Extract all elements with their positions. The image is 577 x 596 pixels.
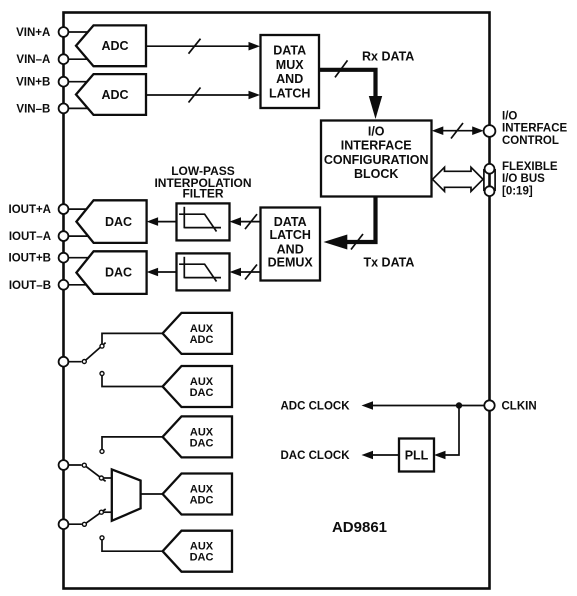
pin aux 1 <box>59 357 69 367</box>
wire AUX ADC 1 input <box>102 333 163 343</box>
switch lever pin3 to mux input 2 <box>84 509 105 524</box>
wire IOUT-A to DAC A <box>64 235 91 237</box>
svg-text:LATCH: LATCH <box>269 228 310 242</box>
open throw circle AUX DAC 3 <box>100 536 104 540</box>
pin FLEXIBLE I/O BUS (stacked) <box>484 164 495 196</box>
svg-text:ADC: ADC <box>190 494 214 506</box>
svg-text:FLEXIBLE: FLEXIBLE <box>502 161 558 173</box>
svg-text:DAC: DAC <box>190 552 214 564</box>
wire aux pin 2 to switch common <box>64 464 82 466</box>
svg-text:CLKIN: CLKIN <box>502 401 537 413</box>
label LOW-PASS INTERPOLATION FILTER <box>154 164 251 201</box>
aux mux trapezoid <box>112 469 141 520</box>
svg-text:INTERFACE: INTERFACE <box>502 123 568 135</box>
wire mux to AUX ADC 2 <box>141 493 163 495</box>
pin VIN-A <box>59 54 69 64</box>
svg-text:DAC CLOCK: DAC CLOCK <box>281 450 351 462</box>
svg-text:IOUT–B: IOUT–B <box>9 280 51 292</box>
svg-text:DEMUX: DEMUX <box>268 256 314 270</box>
svg-text:CONTROL: CONTROL <box>502 135 559 147</box>
svg-text:IOUT+B: IOUT+B <box>9 253 52 265</box>
pin VIN+A <box>59 27 69 37</box>
pin IOUT-A <box>59 231 69 241</box>
svg-text:AND: AND <box>277 242 304 256</box>
label FLEXIBLE I/O BUS [0:19] <box>502 161 558 198</box>
wire AUX DAC 3 input <box>102 540 163 551</box>
DAC B block <box>76 251 146 294</box>
svg-text:AND: AND <box>276 72 303 86</box>
svg-text:DATA: DATA <box>274 215 307 229</box>
switch common circle pin3 <box>82 522 86 526</box>
wire ADC B to DATA MUX (bus) <box>146 88 260 103</box>
switch lever pin1 to AUX ADC 1 <box>84 343 105 362</box>
ADC A block <box>76 25 146 66</box>
AUX DAC 2 block <box>163 416 232 457</box>
mux input 1 circle <box>99 476 103 480</box>
chip border AD9861 <box>64 13 490 589</box>
wire VIN+A to ADC A <box>64 31 91 33</box>
svg-text:INTERFACE: INTERFACE <box>341 139 412 153</box>
wire ADC A to DATA MUX (bus) <box>146 39 260 54</box>
AUX DAC 1 block <box>163 366 232 407</box>
pin IOUT+B <box>59 253 69 263</box>
wire aux pin 1 to switch common <box>64 361 82 363</box>
switch common circle pin1 <box>82 360 86 364</box>
svg-text:[0:19]: [0:19] <box>502 185 533 197</box>
mux input 2 circle <box>99 510 103 514</box>
junction node clock <box>456 402 462 408</box>
svg-text:ADC: ADC <box>101 88 128 102</box>
svg-text:MUX: MUX <box>276 58 304 72</box>
pin VIN+B <box>59 77 69 87</box>
switch throw circle AUX ADC 1 <box>100 344 104 348</box>
svg-text:CONFIGURATION: CONFIGURATION <box>324 153 429 167</box>
AUX DAC 3 block <box>163 531 232 572</box>
wire DATA LATCH to filter B (bus) <box>230 265 261 280</box>
svg-text:ADC CLOCK: ADC CLOCK <box>281 401 351 413</box>
svg-text:VIN+A: VIN+A <box>16 27 50 39</box>
AUX ADC 2 block <box>163 474 232 515</box>
Tx DATA thick bus wire <box>324 197 376 250</box>
DAC A block <box>76 200 146 243</box>
wire AUX DAC 2 input <box>102 437 163 449</box>
wire DATA LATCH to filter A (bus) <box>230 214 261 229</box>
svg-text:BLOCK: BLOCK <box>354 167 398 181</box>
switch lever pin2 to mux input 1 <box>84 465 105 481</box>
wire IOUT-B to DAC B <box>64 284 91 286</box>
svg-text:IOUT+A: IOUT+A <box>9 204 52 216</box>
wire CLKIN to ADC CLOCK <box>362 401 484 410</box>
wire AUX DAC 1 input <box>102 376 163 387</box>
wire aux pin 3 to switch common <box>64 523 82 525</box>
wire VIN-B to ADC B <box>64 107 92 109</box>
pin aux 2 <box>59 460 69 470</box>
svg-text:LATCH: LATCH <box>269 86 310 100</box>
pin aux 3 <box>59 519 69 529</box>
wire VIN-A to ADC A <box>64 58 91 60</box>
pin I/O INTERFACE CONTROL <box>484 125 496 137</box>
wire PLL to DAC CLOCK <box>362 451 400 460</box>
pin VIN-B <box>59 104 69 114</box>
svg-text:I/O: I/O <box>368 124 385 138</box>
switch throw circle AUX DAC 1 <box>100 372 104 376</box>
wire junction to PLL <box>434 406 459 460</box>
ADC B block <box>76 74 146 115</box>
svg-text:DATA: DATA <box>273 44 306 58</box>
low-pass filter block A <box>177 203 230 240</box>
svg-text:Tx DATA: Tx DATA <box>364 256 415 270</box>
svg-text:DAC: DAC <box>190 437 214 449</box>
bus arrow I/O config to FLEXIBLE I/O BUS (hollow double arrow) <box>433 167 484 191</box>
svg-text:DAC: DAC <box>105 215 132 229</box>
label I/O INTERFACE CONTROL <box>502 110 568 147</box>
low-pass filter block B <box>177 253 230 290</box>
svg-text:VIN+B: VIN+B <box>16 77 50 89</box>
AUX ADC 1 block <box>163 313 232 354</box>
svg-text:I/O BUS: I/O BUS <box>502 173 545 185</box>
svg-text:DAC: DAC <box>105 265 132 279</box>
I/O INTERFACE CONFIGURATION BLOCK <box>321 121 432 197</box>
wire mux input 1 <box>104 477 112 479</box>
switch common circle pin2 <box>82 463 86 467</box>
svg-text:PLL: PLL <box>405 448 429 462</box>
wire IOUT+A to DAC A <box>64 208 91 210</box>
pin CLKIN <box>484 400 494 410</box>
svg-text:DAC: DAC <box>190 387 214 399</box>
wire VIN+B to ADC B <box>64 81 90 83</box>
Rx DATA thick bus wire <box>319 60 382 119</box>
svg-text:Rx DATA: Rx DATA <box>362 50 414 64</box>
DATA LATCH AND DEMUX block <box>261 208 321 281</box>
wire IOUT+B to DAC B <box>64 257 90 259</box>
wire filter B to DAC B <box>147 268 177 277</box>
svg-text:FILTER: FILTER <box>182 187 223 201</box>
svg-text:AD9861: AD9861 <box>332 519 387 536</box>
svg-text:ADC: ADC <box>101 39 128 53</box>
PLL block <box>399 439 434 472</box>
pin IOUT-B <box>59 280 69 290</box>
svg-text:VIN–B: VIN–B <box>16 103 50 115</box>
svg-text:IOUT–A: IOUT–A <box>9 231 51 243</box>
svg-text:VIN–A: VIN–A <box>16 54 50 66</box>
svg-text:ADC: ADC <box>190 334 214 346</box>
svg-text:I/O: I/O <box>502 110 517 122</box>
DATA MUX AND LATCH block <box>261 35 320 108</box>
wire I/O config to I/O INTERFACE CONTROL pin (bidirectional bus) <box>432 123 484 139</box>
pin IOUT+A <box>59 204 69 214</box>
wire mux input 2 <box>104 511 112 513</box>
wire filter A to DAC A <box>147 217 177 226</box>
open throw circle AUX DAC 2 <box>100 449 104 453</box>
